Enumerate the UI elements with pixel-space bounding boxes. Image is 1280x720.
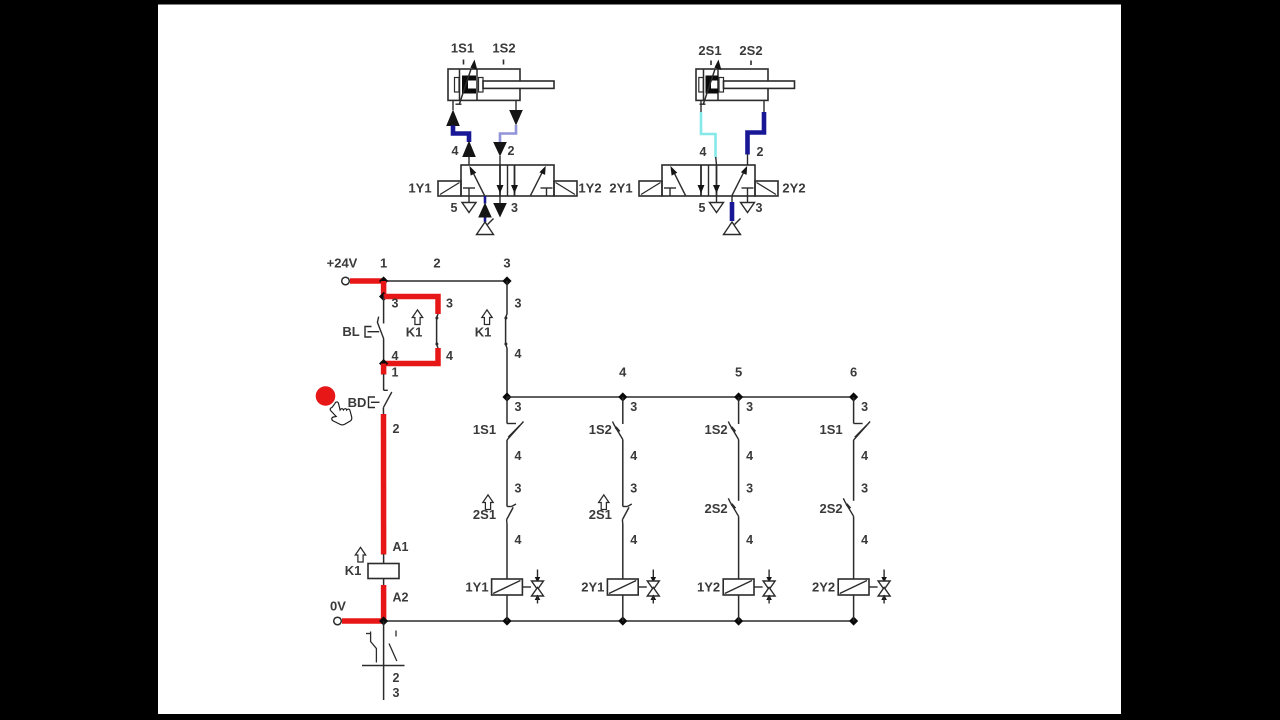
- wire branch3 down: [506, 281, 508, 314]
- svg-text:4: 4: [861, 533, 868, 547]
- pushbutton BD contact arm open: [383, 392, 391, 408]
- wire 2S2 to 2Y2: [853, 516, 855, 544]
- svg-text:BD: BD: [348, 395, 367, 410]
- svg-text:3: 3: [392, 297, 399, 311]
- valve 1V supply port 1: [484, 196, 487, 204]
- energized indicator 2S1: [483, 495, 493, 510]
- pushbutton BD lower lead: [382, 408, 384, 414]
- wire 1S2 to 2S1 branch4: [622, 440, 624, 507]
- pushbutton BL lower lead: [383, 339, 385, 364]
- valve 1V exhaust port 5: [468, 196, 470, 203]
- wire 1S1 to 2S1: [506, 440, 508, 507]
- limit switch 1S1 upper lead: [506, 397, 508, 424]
- cylinder 1A port stub left: [452, 100, 454, 110]
- tube stub into valve 2V port 2: [747, 154, 749, 165]
- svg-text:1Y2: 1Y2: [697, 580, 720, 595]
- compressed air source 0Z1: [477, 222, 494, 235]
- svg-text:3: 3: [746, 400, 753, 414]
- solenoid coil 1Y2 box: [554, 181, 577, 196]
- cylinder 1A motion arrow: [459, 69, 471, 105]
- svg-text:K1: K1: [345, 563, 362, 578]
- cylinder 1A piston plate right: [476, 70, 478, 100]
- svg-text:3: 3: [515, 482, 522, 496]
- svg-text:5: 5: [735, 365, 742, 380]
- svg-text:4: 4: [452, 144, 459, 158]
- svg-text:2Y1: 2Y1: [609, 181, 632, 196]
- svg-text:4: 4: [630, 533, 637, 547]
- svg-text:3: 3: [393, 686, 400, 700]
- svg-text:2S1: 2S1: [589, 507, 612, 522]
- svg-text:1S1: 1S1: [451, 41, 474, 56]
- svg-text:4: 4: [700, 145, 707, 159]
- svg-text:A2: A2: [393, 591, 409, 605]
- svg-text:4: 4: [619, 365, 627, 380]
- tube stub into valve 2V port 4: [715, 157, 718, 165]
- valve 1V left box flow path 2 to 3: [499, 165, 501, 196]
- svg-text:4: 4: [630, 449, 637, 463]
- valve 2V body: [662, 165, 755, 196]
- terminal +24V: [342, 277, 350, 285]
- svg-text:K1: K1: [475, 325, 492, 340]
- wire K1 branch red return: [384, 348, 438, 364]
- svg-text:2S1: 2S1: [698, 43, 721, 58]
- valve solenoid 1Y1 upper lead: [506, 544, 508, 579]
- cylinder 2A port stub right: [763, 100, 765, 112]
- cylinder 2A piston rod: [724, 81, 795, 88]
- tube 1A-left pressurised segment: [453, 126, 469, 143]
- limit switch 2S2 (branch5) contact arm: [728, 498, 738, 516]
- wire to K1 contact branch red: [384, 297, 438, 315]
- wire K1 branch3 to bus: [506, 348, 508, 397]
- valve 2V box divider: [708, 165, 710, 196]
- valve solenoid 2Y1 upper lead: [622, 544, 624, 579]
- energized indicator 2S1: [599, 495, 609, 510]
- compressed air source 0Z2: [724, 222, 741, 235]
- relay K1 contact assignment stem: [383, 621, 385, 700]
- valve 1V exhaust port 3 flow arrow: [499, 196, 501, 204]
- limit switch 1S2 (branch4) upper lead: [622, 397, 624, 424]
- node bus col4: [618, 392, 627, 401]
- valve 1V left box blocked port 5: [463, 187, 475, 189]
- cylinder 2A piston magnet: [706, 76, 719, 94]
- node 0V col5: [734, 616, 743, 625]
- svg-text:1Y2: 1Y2: [578, 181, 601, 196]
- junction BL/K1 top: [379, 292, 388, 301]
- limit switch 2S2 (branch6) contact arm: [843, 498, 853, 516]
- svg-text:4: 4: [515, 533, 522, 547]
- valve 2V left box blocked port 5: [664, 187, 676, 189]
- flow arrow up (tube 1, lower): [462, 141, 476, 158]
- mouse click highlight dot: [316, 386, 336, 406]
- wire 2S2 to 1Y2: [738, 516, 740, 544]
- cylinder 2A piston plate left: [703, 70, 705, 100]
- valve 2V right box flow path 1 to 2: [732, 170, 745, 195]
- relay contact K1 branch3 closed: [506, 314, 507, 348]
- terminal 0V: [334, 617, 342, 625]
- cylinder 2A cushion seal left: [699, 78, 704, 93]
- valve solenoid 1Y2: [723, 579, 754, 595]
- pushbutton BL actuator: [365, 327, 372, 338]
- valve solenoid 2Y2 upper lead: [853, 544, 855, 579]
- cylinder 1A port stub right: [515, 100, 517, 110]
- valve 2V left box flow path 1 to 4: [673, 170, 686, 195]
- limit switch 2S1 contact arm closed: [622, 507, 629, 519]
- pushbutton BD upper lead: [383, 374, 385, 390]
- valve 1V right box flow path 1 to 2: [531, 170, 544, 195]
- svg-text:1: 1: [392, 366, 399, 380]
- valve solenoid 2Y2: [838, 579, 869, 595]
- tube 1 stub into valve port 4: [468, 157, 470, 166]
- svg-text:1S1: 1S1: [473, 422, 496, 437]
- node 0V col1: [379, 616, 388, 625]
- valve solenoid 2Y1 lower lead: [622, 595, 624, 621]
- cylinder 2A barrel: [696, 69, 768, 100]
- energized indicator K1 branch2: [412, 310, 422, 325]
- valve 2V exhaust port 5: [716, 196, 718, 203]
- energized indicator K1 coil: [355, 547, 365, 562]
- wire junction to BD red: [381, 364, 387, 375]
- cylinder 1A piston rod: [483, 81, 554, 88]
- limit switch 2S1 upper lead tick: [623, 506, 628, 508]
- valve 2V left box flow path 2 to 3: [700, 165, 702, 196]
- energized indicator K1 branch3: [482, 310, 492, 325]
- relay coil K1: [368, 564, 399, 579]
- svg-text:1S2: 1S2: [705, 422, 728, 437]
- svg-text:3: 3: [756, 201, 763, 215]
- wire coil to 0V red: [381, 585, 387, 621]
- valve symbol link 1Y1: [522, 586, 531, 588]
- limit switch 2S1 upper lead tick: [507, 506, 512, 508]
- limit switch 1S1 contact arm: [507, 422, 524, 441]
- solenoid coil 1Y1 box: [438, 181, 461, 196]
- valve solenoid 1Y2 upper lead: [738, 544, 740, 579]
- node 0V col6: [849, 616, 858, 625]
- node bus col6: [849, 392, 858, 401]
- svg-text:1S1: 1S1: [820, 422, 843, 437]
- junction BL/K1 bottom: [379, 359, 388, 368]
- relay K1 contact map NO symbol: [395, 631, 397, 637]
- node bus col3: [502, 392, 511, 401]
- wire 2S1 to 1Y1: [506, 524, 508, 544]
- svg-text:2Y2: 2Y2: [782, 181, 805, 196]
- svg-text:2: 2: [393, 422, 400, 436]
- limit switch 1S1 contact arm: [854, 422, 871, 441]
- tube 2A-right pressurised segment: [748, 112, 765, 155]
- node 0V col4: [618, 616, 627, 625]
- svg-text:2: 2: [393, 671, 400, 685]
- svg-text:2S2: 2S2: [705, 501, 728, 516]
- wire +24V rail red segment: [350, 278, 384, 284]
- svg-text:1S2: 1S2: [589, 422, 612, 437]
- limit switch 1S2 (branch5) upper lead: [738, 397, 740, 424]
- sensor position mark 1S1: [463, 60, 465, 65]
- svg-text:4: 4: [446, 349, 453, 363]
- svg-text:BL: BL: [342, 324, 359, 339]
- valve 2V right box flow path 4 to 5: [716, 165, 718, 196]
- flow arrow down (tube 2, lower): [493, 142, 507, 157]
- pushbutton BL upper lead: [383, 297, 385, 324]
- svg-text:2S2: 2S2: [739, 43, 762, 58]
- cylinder 2A motion arrow: [703, 69, 715, 105]
- valve 2V exhaust port 3: [747, 196, 749, 203]
- cylinder 2A piston plate right: [717, 70, 719, 100]
- svg-text:3: 3: [503, 256, 510, 271]
- wire BD to relay coil red: [381, 414, 387, 555]
- svg-text:1Y1: 1Y1: [408, 181, 431, 196]
- valve 1V body: [461, 165, 554, 196]
- flow arrow down (tube 2, upper): [509, 110, 523, 126]
- wire node1 down red: [381, 281, 387, 297]
- svg-text:1Y1: 1Y1: [465, 580, 488, 595]
- relay contact K1 branch2 closed: [437, 314, 438, 348]
- svg-text:3: 3: [511, 201, 518, 215]
- node 1: [379, 276, 388, 285]
- valve solenoid 1Y1: [492, 579, 523, 595]
- valve 1V right box flow path 4 to 5: [514, 165, 516, 196]
- valve 1V right box blocked port 3: [541, 187, 553, 189]
- wire 1S2 to 2S2 branch5: [738, 440, 740, 501]
- svg-text:3: 3: [446, 297, 453, 311]
- svg-text:A1: A1: [393, 540, 409, 554]
- valve 1V box divider: [507, 165, 509, 196]
- svg-text:4: 4: [515, 449, 522, 463]
- relay coil K1 upper lead: [383, 554, 385, 564]
- svg-text:4: 4: [861, 449, 868, 463]
- limit switch 2S1 contact arm closed: [507, 507, 514, 519]
- valve solenoid 2Y1: [607, 579, 638, 595]
- tube 2A-left vented segment: [701, 112, 716, 158]
- cylinder 1A cushion seal left: [455, 78, 460, 93]
- svg-text:2: 2: [757, 145, 764, 159]
- svg-text:+24V: +24V: [327, 256, 358, 271]
- svg-text:1S2: 1S2: [492, 41, 515, 56]
- control bus rail: [507, 396, 854, 398]
- svg-text:3: 3: [630, 400, 637, 414]
- svg-text:4: 4: [515, 347, 522, 361]
- relay K1 contact assignment bar: [362, 665, 405, 667]
- limit switch 1S2 (branch5) contact arm: [728, 422, 738, 440]
- sensor position mark 1S2: [503, 60, 505, 65]
- cylinder 2A port stub left: [700, 100, 702, 112]
- svg-text:2: 2: [433, 256, 440, 271]
- cylinder 2A cushion seal right: [719, 78, 724, 93]
- svg-text:K1: K1: [406, 325, 423, 340]
- valve solenoid 2Y2 lower lead: [853, 595, 855, 621]
- valve 1V left box flow path 1 to 4: [472, 170, 485, 195]
- svg-text:0V: 0V: [330, 599, 346, 614]
- svg-text:2: 2: [508, 144, 515, 158]
- svg-text:3: 3: [515, 297, 522, 311]
- svg-text:4: 4: [746, 533, 753, 547]
- valve 2V right box blocked port 3: [742, 187, 754, 189]
- svg-text:3: 3: [630, 482, 637, 496]
- svg-text:3: 3: [861, 482, 868, 496]
- valve symbol link 2Y1: [638, 586, 647, 588]
- svg-text:2Y1: 2Y1: [581, 580, 604, 595]
- sensor position mark 2S1: [710, 61, 712, 66]
- cylinder 1A cushion seal right: [479, 78, 484, 93]
- node 0V col3: [502, 616, 511, 625]
- sensor position mark 2S2: [750, 61, 752, 66]
- relay coil K1 lower lead: [383, 579, 385, 586]
- svg-text:2Y2: 2Y2: [812, 580, 835, 595]
- pushbutton BD actuator: [369, 397, 376, 408]
- tube 1A-right exhaust segment: [500, 125, 516, 143]
- pushbutton BL contact arm: [377, 317, 383, 339]
- wire 0V red segment: [342, 618, 384, 624]
- svg-text:5: 5: [451, 201, 458, 215]
- svg-text:5: 5: [699, 201, 706, 215]
- cylinder 1A barrel: [448, 69, 520, 100]
- node rail branch 3: [502, 276, 511, 285]
- svg-text:4: 4: [746, 449, 753, 463]
- valve symbol link 1Y2: [754, 586, 763, 588]
- valve solenoid 1Y2 lower lead: [738, 595, 740, 621]
- solenoid coil 2Y2 box: [755, 181, 778, 196]
- solenoid coil 2Y1 box: [639, 181, 662, 196]
- valve 2V supply port 1: [731, 196, 733, 202]
- valve solenoid 1Y1 lower lead: [506, 595, 508, 621]
- svg-text:2S1: 2S1: [473, 507, 496, 522]
- valve symbol link 2Y2: [869, 586, 878, 588]
- cylinder 1A piston plate left: [459, 70, 461, 100]
- wire 1S1 to 2S2 branch6: [853, 440, 855, 501]
- svg-text:2S2: 2S2: [820, 501, 843, 516]
- node bus col5: [734, 392, 743, 401]
- hand cursor: [325, 398, 354, 429]
- tube 2 stub into valve port 2: [499, 156, 501, 165]
- 0V rail: [384, 620, 854, 622]
- cylinder 1A piston magnet: [462, 76, 476, 94]
- limit switch 1S2 (branch4) contact arm: [613, 422, 623, 440]
- svg-text:3: 3: [861, 400, 868, 414]
- wire 2S1 to 2Y1: [622, 524, 624, 544]
- svg-text:3: 3: [746, 482, 753, 496]
- relay K1 contact map NC symbol: [366, 633, 371, 635]
- flow arrow up (tube 1, upper): [446, 110, 460, 127]
- limit switch 1S1 upper lead: [853, 397, 855, 424]
- white schematic canvas: [158, 5, 1121, 715]
- wire +24V rail to branch 3: [384, 280, 507, 282]
- svg-text:6: 6: [850, 365, 857, 380]
- svg-text:1: 1: [380, 256, 387, 271]
- svg-text:3: 3: [515, 400, 522, 414]
